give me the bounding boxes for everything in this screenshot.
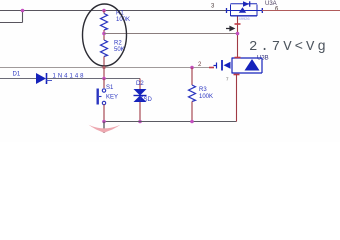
svg-text:6: 6 — [275, 7, 279, 13]
svg-text:3: 3 — [211, 4, 215, 10]
wire R3 bottom lead — [191, 102, 193, 122]
node junction gate net — [236, 32, 240, 36]
U3A drain pin cross — [261, 8, 263, 13]
wire U3A drain to right edge — [262, 10, 340, 12]
svg-text:D1: D1 — [13, 72, 21, 78]
svg-text:ESD: ESD — [140, 97, 153, 103]
resistor R1 — [101, 14, 108, 31]
ground stem — [103, 122, 105, 134]
pin tick U3A gate — [235, 23, 241, 25]
node junction R3 top — [190, 66, 194, 70]
diode D2 TVS bidirectional — [134, 89, 147, 102]
svg-text:2.7V<Vg: 2.7V<Vg — [249, 39, 329, 55]
wire S1 top lead — [103, 79, 105, 89]
pin tick U3B source bottom — [234, 74, 240, 76]
svg-text:49926: 49926 — [239, 16, 251, 21]
wire D1 anode lead — [0, 78, 36, 80]
resistor R2 — [101, 40, 108, 57]
node cross at R2 bottom — [102, 66, 105, 69]
wire D2 branch corner — [139, 79, 141, 90]
wire D2 bottom lead — [139, 102, 141, 122]
node junction D2 bottom — [138, 120, 142, 124]
node junction left stub — [21, 9, 25, 13]
svg-text:S1: S1 — [106, 85, 114, 91]
svg-text:7: 7 — [226, 77, 229, 82]
annotation arrow at gate — [226, 27, 234, 31]
pin tick U3B drain top — [235, 57, 241, 59]
node junction D1 net — [102, 77, 106, 81]
svg-text:R3: R3 — [199, 87, 207, 93]
wire top rail VDD net — [0, 10, 228, 12]
ground symbol — [89, 125, 121, 133]
U3B body diode — [245, 59, 260, 71]
U3A source pin cross — [226, 8, 228, 13]
svg-text:R2: R2 — [114, 41, 122, 47]
wire R1 top lead — [103, 11, 105, 14]
wire divider mid to gate net — [104, 33, 238, 35]
wire U3B source down to ground rail — [236, 75, 238, 122]
switch S1 pushbutton — [97, 89, 106, 105]
node junction R3 bottom — [190, 120, 194, 124]
node junction divider mid — [102, 32, 106, 36]
pin tick U3B gate — [209, 67, 214, 69]
diode D1 — [36, 73, 46, 84]
wire long gray net to U3B gate — [0, 67, 213, 69]
wire D1 cathode to node — [47, 78, 140, 80]
wire bottom ground rail — [104, 121, 237, 123]
wire U3A gate down to U3B — [237, 17, 239, 59]
U3B substrate arrow — [224, 62, 231, 69]
svg-text:KEY: KEY — [106, 95, 118, 101]
transistor U3A p-channel MOSFET — [227, 4, 263, 16]
wire R1 bottom lead — [103, 30, 105, 40]
wire left stub vertical — [22, 11, 24, 23]
node junction top of R1 — [102, 9, 106, 13]
resistor R3 — [189, 85, 196, 102]
ellipse highlight around R1 R2 — [83, 4, 127, 66]
wire R2 bottom lead — [103, 57, 105, 79]
svg-text:100K: 100K — [199, 94, 213, 100]
wire S1 bottom lead — [103, 105, 105, 122]
svg-text:D2: D2 — [136, 81, 144, 87]
transistor U3B n-channel MOSFET — [214, 58, 263, 74]
U3A substrate arrow — [239, 7, 246, 13]
wire R3 top lead — [191, 68, 193, 86]
U3A body diode — [243, 1, 249, 6]
wire left stub horizontal — [0, 22, 23, 24]
node junction ground — [102, 120, 106, 124]
